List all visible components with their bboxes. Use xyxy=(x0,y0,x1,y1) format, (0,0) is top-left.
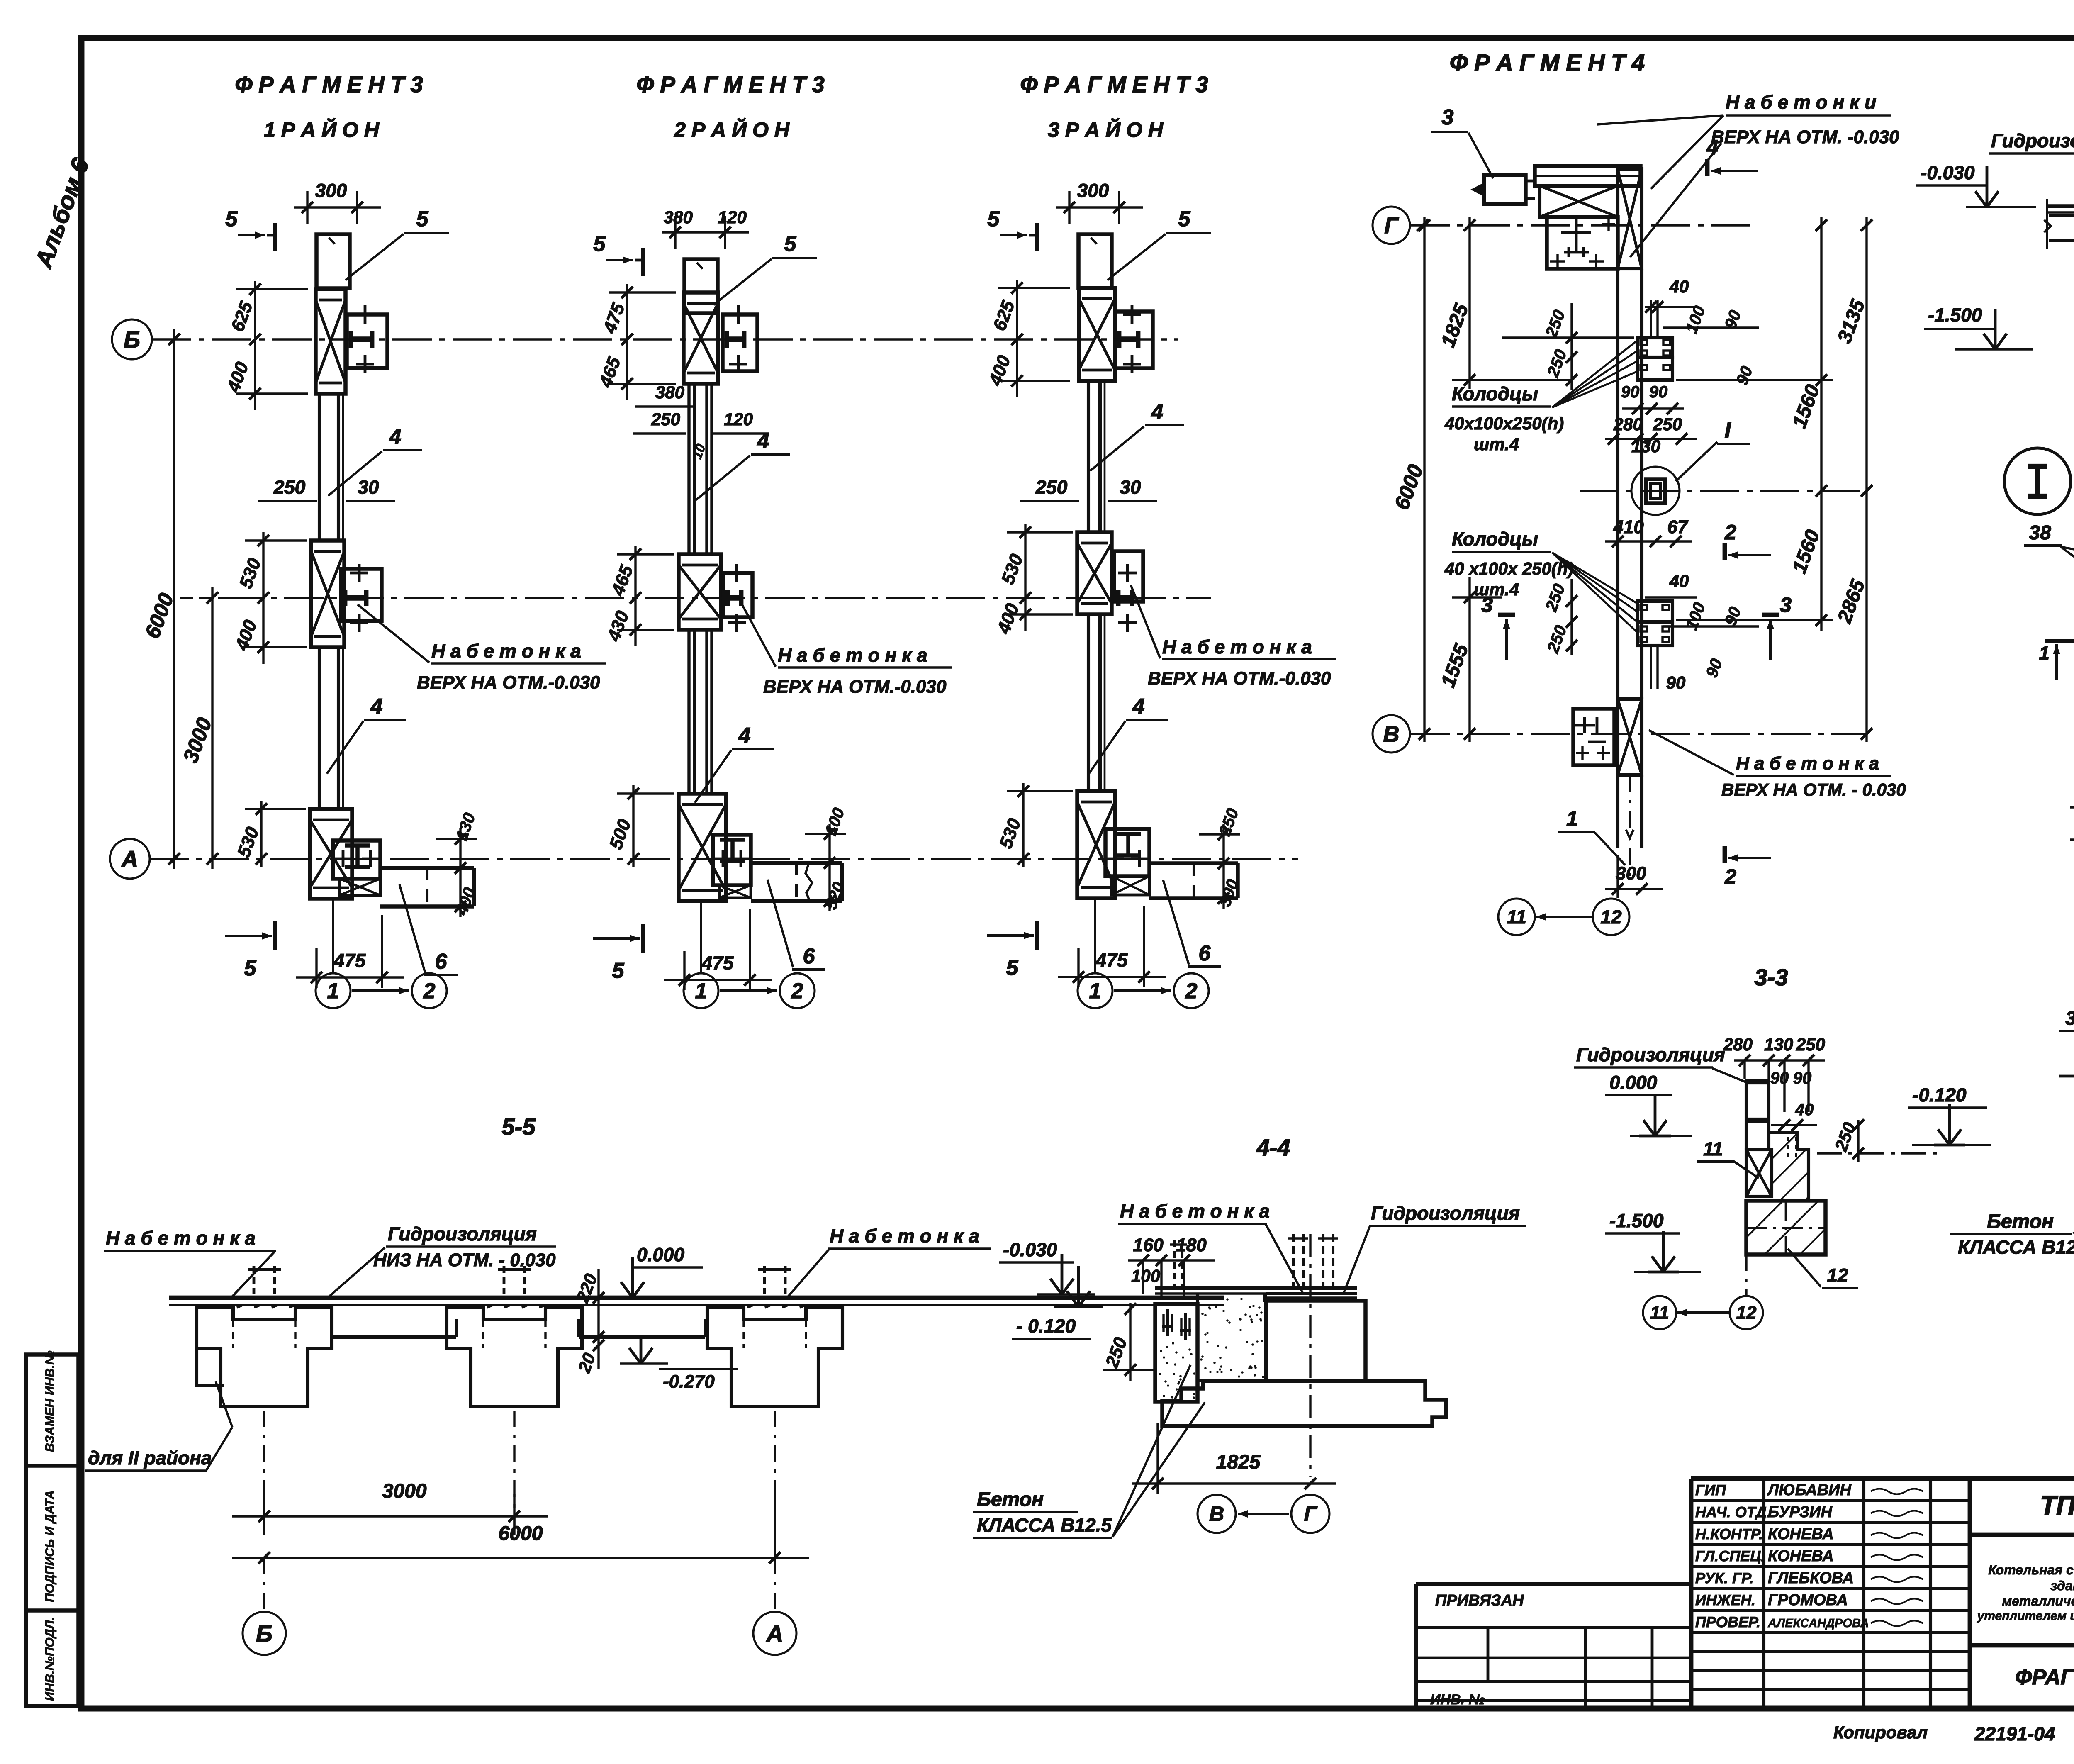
svg-text:6: 6 xyxy=(1199,941,1211,965)
svg-text:КОНЕВА: КОНЕВА xyxy=(1768,1525,1834,1543)
wall plan lines xyxy=(1616,269,1619,699)
dimension 475 bottom xyxy=(1077,948,1079,987)
vertical dim 6000 fragment1 xyxy=(173,329,175,869)
svg-text:250: 250 xyxy=(651,409,680,429)
svg-text:Ф Р А Г М Е Н Т 3: Ф Р А Г М Е Н Т 3 xyxy=(1020,72,1208,97)
left wall block 4-4 xyxy=(1155,1304,1198,1402)
label 5 leader xyxy=(404,232,449,234)
svg-text:3: 3 xyxy=(1780,593,1792,616)
svg-text:5: 5 xyxy=(226,207,238,231)
bolts above pedestal 4-4 xyxy=(1292,1234,1295,1294)
svg-text:Копировал: Копировал xyxy=(1833,1723,1928,1742)
svg-text:250: 250 xyxy=(1035,476,1068,498)
svg-text:В: В xyxy=(1383,722,1400,747)
svg-text:100: 100 xyxy=(1131,1266,1160,1286)
existing slab edge left 2-2 xyxy=(2049,214,2074,217)
names empty rows xyxy=(1691,1650,1970,1653)
svg-text:2: 2 xyxy=(1185,979,1198,1003)
center line 4-4 xyxy=(1309,1234,1311,1477)
section mark 4 top xyxy=(1705,159,1710,176)
axis line A horizontal xyxy=(149,858,1298,860)
upper wells bolt lines xyxy=(1650,300,1652,338)
svg-text:шт.4: шт.4 xyxy=(1474,580,1519,599)
svg-text:2: 2 xyxy=(1724,521,1736,544)
detail I circle in plan xyxy=(1631,467,1680,515)
svg-text:4: 4 xyxy=(389,425,402,449)
svg-text:4: 4 xyxy=(1132,694,1145,719)
svg-text:475: 475 xyxy=(701,952,734,974)
svg-text:Б: Б xyxy=(124,326,140,353)
svg-text:-1.500: -1.500 xyxy=(1609,1210,1664,1231)
svg-text:ГЛЕБКОВА: ГЛЕБКОВА xyxy=(1768,1569,1854,1587)
beam end dims xyxy=(459,828,461,917)
svg-text:38: 38 xyxy=(2029,522,2051,544)
module at axis B plan xyxy=(1573,709,1614,765)
svg-text:11: 11 xyxy=(1650,1303,1669,1323)
top module plan braced panel xyxy=(1540,186,1618,217)
svg-text:Н а б е т о н к и: Н а б е т о н к и xyxy=(1726,91,1876,113)
svg-text:В: В xyxy=(1209,1502,1224,1525)
names rows xyxy=(1691,1499,1970,1502)
kolodtsy leaders upper xyxy=(1552,340,1638,407)
svg-text:Г: Г xyxy=(1304,1502,1318,1525)
top pier xyxy=(1078,234,1112,288)
svg-text:РУК. ГР.: РУК. ГР. xyxy=(1695,1569,1754,1586)
wall lines lower xyxy=(318,647,321,809)
svg-text:40 х100х 250(h): 40 х100х 250(h) xyxy=(1444,559,1574,578)
svg-text:5: 5 xyxy=(1178,207,1191,231)
middle anchor box xyxy=(723,573,752,617)
dimension 475 bottom xyxy=(683,951,685,990)
middle module with cross bracing xyxy=(311,541,344,647)
svg-text:3-3: 3-3 xyxy=(1755,964,1788,990)
svg-text:Н а б е т о н к а: Н а б е т о н к а xyxy=(778,644,927,666)
svg-text:90: 90 xyxy=(1666,673,1686,692)
footing 3-3 xyxy=(1746,1201,1826,1255)
svg-text:4: 4 xyxy=(1151,400,1164,424)
bottom anchor box xyxy=(1105,829,1149,876)
section mark 5 top xyxy=(1029,234,1037,237)
svg-text:300: 300 xyxy=(1616,863,1646,884)
svg-text:280: 280 xyxy=(1723,1035,1753,1054)
left margin stamp boxes xyxy=(26,1355,78,1706)
svg-text:250: 250 xyxy=(273,476,306,498)
axis circles B A 5-5 xyxy=(243,1612,286,1655)
svg-text:38: 38 xyxy=(2065,1007,2074,1029)
svg-text:3: 3 xyxy=(1481,593,1493,616)
dimension 475 bottom xyxy=(315,948,317,988)
axis circles 11 12 3-3 xyxy=(1643,1296,1676,1329)
svg-text:Н а б е т о н к а: Н а б е т о н к а xyxy=(830,1225,979,1247)
svg-text:2 Р А Й О Н: 2 Р А Й О Н xyxy=(674,118,790,141)
wall lines upper xyxy=(318,394,321,541)
svg-text:4: 4 xyxy=(1706,136,1718,159)
top module anchor box plan xyxy=(1547,217,1618,269)
foundation beam 6 xyxy=(380,866,474,870)
left pier 5-5 xyxy=(197,1308,332,1407)
svg-text:250: 250 xyxy=(1796,1035,1825,1054)
beam break mark fragment 2 xyxy=(806,863,812,901)
svg-text:130: 130 xyxy=(1631,436,1660,456)
svg-text:Г: Г xyxy=(1384,213,1399,238)
svg-text:12: 12 xyxy=(1736,1303,1757,1323)
svg-text:22191-04: 22191-04 xyxy=(1974,1723,2055,1745)
svg-text:40: 40 xyxy=(1669,571,1689,591)
svg-text:ПОДПИСЬ И ДАТА: ПОДПИСЬ И ДАТА xyxy=(43,1490,57,1602)
label 5 leader xyxy=(1166,232,1211,234)
svg-text:5: 5 xyxy=(416,207,429,231)
bottom anchor box xyxy=(333,841,380,879)
left dimension 530 xyxy=(632,785,634,867)
wall lines lower xyxy=(1087,614,1090,791)
label 5 leader xyxy=(772,257,817,259)
top anchor box xyxy=(723,314,757,371)
privyazan block xyxy=(1416,1582,1691,1586)
svg-text:ИНЖЕН.: ИНЖЕН. xyxy=(1695,1591,1755,1608)
svg-text:6: 6 xyxy=(803,944,815,968)
svg-text:11: 11 xyxy=(1507,906,1526,928)
axis line middle dashdot xyxy=(224,597,1211,599)
svg-text:5: 5 xyxy=(594,232,606,256)
svg-text:Н а б е т о н к а: Н а б е т о н к а xyxy=(1162,636,1312,658)
left dimension 530 xyxy=(1022,783,1024,867)
middle module with cross bracing xyxy=(679,554,721,630)
section marks 1 detail I xyxy=(2045,639,2074,643)
top dimension 380 120 xyxy=(662,231,749,233)
svg-text:40: 40 xyxy=(1669,277,1689,296)
title block outer xyxy=(1689,1479,1694,1708)
left dimension 625-400 xyxy=(1016,280,1018,397)
svg-text:11: 11 xyxy=(1703,1138,1723,1160)
section mark 5 top xyxy=(635,259,643,262)
svg-text:5: 5 xyxy=(244,956,257,980)
svg-text:475: 475 xyxy=(333,950,366,971)
top pier xyxy=(316,234,350,288)
axis circles 11 and 12 xyxy=(1498,899,1535,935)
wall lines lower xyxy=(687,630,690,794)
axis Г line xyxy=(1410,224,1758,226)
top module with cross bracing xyxy=(1079,288,1115,381)
top wall cross box xyxy=(1618,169,1642,269)
svg-text:Бетон: Бетон xyxy=(1987,1211,2054,1233)
axis circle B xyxy=(112,319,152,359)
svg-text:-0.030: -0.030 xyxy=(1003,1239,1057,1260)
left dimension 530 xyxy=(260,801,262,867)
wall stub below B xyxy=(1616,775,1619,848)
svg-text:ГИП: ГИП xyxy=(1695,1481,1726,1498)
svg-text:ИНВ.№ПОДЛ.: ИНВ.№ПОДЛ. xyxy=(43,1617,57,1701)
svg-text:5-5: 5-5 xyxy=(502,1113,536,1140)
svg-text:АЛЕКСАНДРОВА: АЛЕКСАНДРОВА xyxy=(1767,1617,1869,1630)
cross box 11 3-3 xyxy=(1746,1150,1772,1196)
svg-text:Гидроизоляция: Гидроизоляция xyxy=(1371,1202,1520,1224)
foundation beam 6 xyxy=(751,861,842,865)
svg-text:Н а б е т о н к а: Н а б е т о н к а xyxy=(431,640,581,662)
svg-text:30: 30 xyxy=(358,476,379,498)
svg-text:А: А xyxy=(766,1620,783,1647)
svg-text:380: 380 xyxy=(655,383,684,402)
section mark 2 upper xyxy=(1723,543,1727,560)
left dimension mid xyxy=(262,532,264,664)
svg-text:Гидроизоляция: Гидроизоляция xyxy=(1991,130,2074,151)
svg-text:300: 300 xyxy=(1077,180,1109,201)
element 3 channel box plan xyxy=(1484,175,1526,204)
middle module with cross bracing xyxy=(1077,532,1112,614)
vertical dim 1825 xyxy=(1468,217,1470,389)
svg-text:ПРИВЯЗАН: ПРИВЯЗАН xyxy=(1435,1592,1524,1609)
svg-text:ТП 903-1-244.87: ТП 903-1-244.87 xyxy=(2040,1490,2074,1520)
axis circles 1 and 2 xyxy=(1078,973,1112,1008)
svg-text:280: 280 xyxy=(1613,414,1643,434)
upper wells cluster xyxy=(1638,338,1672,357)
bottom anchor box xyxy=(713,835,751,885)
hydro slab 4-4 xyxy=(1155,1286,1357,1290)
slab underside between piers xyxy=(332,1335,456,1339)
bottom corner module with cross bracing xyxy=(1077,791,1115,898)
nabetonka partial hatch 3-3 xyxy=(1769,1133,1809,1201)
axis Г circle xyxy=(1373,207,1410,244)
bottom small cross box xyxy=(719,885,751,898)
svg-text:ВЕРХ НА ОТМ. - 0.030: ВЕРХ НА ОТМ. - 0.030 xyxy=(1721,780,1906,799)
svg-text:Котельная с 4 котлами ДЕ-10-14: Котельная с 4 котлами ДЕ-10-14гм xyxy=(1988,1562,2074,1577)
svg-text:40: 40 xyxy=(1795,1101,1814,1119)
lower wells cluster xyxy=(1638,601,1672,622)
svg-text:1: 1 xyxy=(695,979,707,1003)
bottom corner module with cross bracing xyxy=(310,809,352,899)
svg-text:Бетон: Бетон xyxy=(977,1489,1044,1511)
svg-text:Ф Р А Г М Е Н Т 3: Ф Р А Г М Е Н Т 3 xyxy=(636,72,824,97)
leader lines nabetonki xyxy=(1651,115,1723,189)
section mark 5 top xyxy=(267,234,275,237)
svg-text:ИНВ. №: ИНВ. № xyxy=(1430,1692,1485,1708)
svg-text:-0.030: -0.030 xyxy=(1921,162,1975,183)
svg-text:ВЕРХ НА ОТМ.-0.030: ВЕРХ НА ОТМ.-0.030 xyxy=(763,677,947,697)
svg-text:1: 1 xyxy=(1566,807,1578,830)
vertical dim 3000 fragment1 xyxy=(211,587,213,869)
svg-text:5: 5 xyxy=(988,207,1000,231)
svg-text:1 Р А Й О Н: 1 Р А Й О Н xyxy=(264,118,380,141)
section mark 5 bottom xyxy=(273,921,277,950)
axis line at detail I xyxy=(1580,490,1867,492)
svg-text:БУРЗИН: БУРЗИН xyxy=(1768,1503,1833,1521)
svg-text:0.000: 0.000 xyxy=(637,1244,685,1265)
svg-text:300: 300 xyxy=(315,180,347,201)
svg-text:-1.500: -1.500 xyxy=(1928,304,1982,326)
svg-text:НИЗ НА ОТМ. - 0.030: НИЗ НА ОТМ. - 0.030 xyxy=(373,1250,556,1270)
svg-text:1: 1 xyxy=(1089,979,1101,1003)
beam end dims xyxy=(828,824,830,911)
svg-text:утеплителем из минераловатных: утеплителем из минераловатных плит xyxy=(1977,1609,2074,1623)
svg-text:Н а б е т о н к а: Н а б е т о н к а xyxy=(106,1227,256,1249)
top anchor box xyxy=(347,314,387,368)
svg-text:160: 160 xyxy=(1133,1235,1164,1255)
kolodtsy leaders lower xyxy=(1552,553,1638,604)
axis circle A xyxy=(110,839,150,879)
svg-text:12: 12 xyxy=(1600,906,1622,928)
bottom small cross box xyxy=(1112,876,1149,895)
svg-text:120: 120 xyxy=(724,409,753,429)
left dimension mid xyxy=(634,546,636,646)
svg-text:1: 1 xyxy=(327,979,339,1003)
svg-text:4-4: 4-4 xyxy=(1256,1134,1290,1160)
svg-text:410: 410 xyxy=(1613,517,1644,537)
svg-text:ЛЮБАВИН: ЛЮБАВИН xyxy=(1767,1481,1852,1499)
axis circles 1 and 2 xyxy=(684,973,718,1008)
svg-text:I: I xyxy=(1724,418,1731,443)
svg-text:Гидроизоляция: Гидроизоляция xyxy=(388,1223,537,1245)
step shape left pier for district II xyxy=(197,1348,224,1386)
foundation beam 6 xyxy=(1149,861,1238,865)
svg-text:475: 475 xyxy=(1095,949,1128,971)
svg-text:-0.120: -0.120 xyxy=(1912,1084,1967,1106)
svg-text:-0.270: -0.270 xyxy=(663,1372,715,1392)
svg-text:ГРОМОВА: ГРОМОВА xyxy=(1768,1591,1848,1609)
svg-text:30: 30 xyxy=(1120,476,1141,498)
svg-text:4: 4 xyxy=(738,724,751,748)
svg-text:Б: Б xyxy=(256,1620,273,1647)
svg-text:ГЛ.СПЕЦ.: ГЛ.СПЕЦ. xyxy=(1695,1547,1765,1564)
svg-text:90: 90 xyxy=(1621,383,1640,401)
svg-text:ФРАГМЕНТЫ 3, 4: ФРАГМЕНТЫ 3, 4 xyxy=(2015,1665,2074,1689)
svg-text:2: 2 xyxy=(423,979,436,1003)
pedestal 4-4 xyxy=(1266,1301,1366,1381)
svg-text:ВЕРХ НА ОТМ.-0.030: ВЕРХ НА ОТМ.-0.030 xyxy=(417,672,600,693)
axis B line xyxy=(1410,733,1867,735)
svg-text:2: 2 xyxy=(791,979,803,1003)
svg-text:ПРОВЕР.: ПРОВЕР. xyxy=(1695,1613,1760,1630)
names column lines xyxy=(1762,1479,1765,1708)
svg-text:130: 130 xyxy=(1764,1035,1793,1054)
svg-text:КЛАССА В12.5: КЛАССА В12.5 xyxy=(1958,1236,2074,1258)
axis circles 1 and 2 xyxy=(316,973,351,1008)
svg-text:4: 4 xyxy=(370,694,383,719)
section marks 3 left and right xyxy=(1498,613,1515,617)
top module with cross bracing xyxy=(316,289,346,394)
svg-text:5: 5 xyxy=(1006,956,1019,980)
svg-text:6: 6 xyxy=(435,950,448,974)
svg-text:6000: 6000 xyxy=(499,1523,543,1545)
axis B circle xyxy=(1373,715,1410,753)
svg-text:КЛАССА В12.5: КЛАССА В12.5 xyxy=(977,1514,1112,1536)
svg-text:2: 2 xyxy=(1724,865,1736,888)
hydro hatch strips at pier tops 5-5 xyxy=(202,1305,209,1308)
svg-text:здание из легких: здание из легких xyxy=(2050,1578,2074,1593)
beam end dims xyxy=(1222,824,1224,909)
footing slab 4-4 xyxy=(1162,1381,1446,1426)
svg-text:12: 12 xyxy=(1827,1265,1848,1286)
section mark 5 bottom xyxy=(641,924,645,953)
section mark 2 lower xyxy=(1723,846,1727,863)
svg-text:КОНЕВА: КОНЕВА xyxy=(1768,1547,1834,1565)
svg-text:5: 5 xyxy=(612,959,625,983)
top dimension 300 xyxy=(294,206,381,208)
bottom corner module with cross bracing xyxy=(679,794,726,901)
axis circles V G 4-4 xyxy=(1198,1495,1236,1533)
left bolts above slab 4-4 xyxy=(1173,1240,1176,1288)
axis line B horizontal xyxy=(152,338,1178,340)
svg-text:90: 90 xyxy=(1770,1069,1789,1087)
svg-text:Н а б е т о н к а: Н а б е т о н к а xyxy=(1736,753,1879,774)
svg-text:3 Р А Й О Н: 3 Р А Й О Н xyxy=(1048,118,1164,141)
middle anchor box xyxy=(1114,551,1143,602)
left dimension mid xyxy=(1024,524,1026,631)
svg-text:5: 5 xyxy=(784,232,797,256)
svg-text:Ф Р А Г М Е Н Т 4: Ф Р А Г М Е Н Т 4 xyxy=(1450,49,1645,76)
ground line 1-1 xyxy=(2059,1075,2074,1078)
svg-text:120: 120 xyxy=(718,207,747,227)
top module with cross bracing xyxy=(684,292,718,384)
svg-text:Н.КОНТР.: Н.КОНТР. xyxy=(1695,1525,1763,1542)
svg-text:90: 90 xyxy=(1649,383,1668,401)
top module plan plate xyxy=(1535,166,1641,186)
svg-text:для II района: для II района xyxy=(88,1447,212,1469)
left dimension 475-465 xyxy=(626,284,628,400)
left dimension 625-400 xyxy=(254,281,256,410)
svg-text:Гидроизоляция: Гидроизоляция xyxy=(1576,1044,1725,1065)
lower wells bolt lines xyxy=(1650,646,1652,689)
svg-text:Ф Р А Г М Е Н Т 3: Ф Р А Г М Е Н Т 3 xyxy=(235,72,423,97)
top dimension 300 xyxy=(1056,206,1143,208)
svg-text:ВЕРХ НА ОТМ.-0.030: ВЕРХ НА ОТМ.-0.030 xyxy=(1148,668,1331,689)
svg-text:40х100х250(h): 40х100х250(h) xyxy=(1444,414,1564,433)
top pier xyxy=(684,259,718,313)
svg-text:НАЧ. ОТД.: НАЧ. ОТД. xyxy=(1695,1503,1771,1520)
svg-text:ВЕРХ НА ОТМ. -0.030: ВЕРХ НА ОТМ. -0.030 xyxy=(1711,127,1899,147)
big right block frame xyxy=(1970,1533,2074,1537)
vertical dim 6000 left xyxy=(1423,217,1425,742)
middle anchor box xyxy=(341,569,382,621)
right dims 3135 1560 1560 2865 xyxy=(1865,217,1867,742)
detail I leader label xyxy=(1676,442,1717,481)
svg-text:1825: 1825 xyxy=(1216,1451,1261,1473)
wall top 3-3 xyxy=(1745,1084,1748,1150)
svg-text:Колодцы: Колодцы xyxy=(1452,383,1538,404)
svg-text:шт.4: шт.4 xyxy=(1474,434,1519,454)
svg-text:90: 90 xyxy=(1793,1069,1812,1087)
svg-text:0.000: 0.000 xyxy=(1609,1072,1658,1093)
bottom small cross box xyxy=(339,879,380,895)
svg-text:- 0.120: - 0.120 xyxy=(1016,1315,1076,1337)
svg-text:Н а б е т о н к а: Н а б е т о н к а xyxy=(1120,1200,1270,1222)
svg-text:3: 3 xyxy=(1442,105,1454,129)
section mark 5 bottom xyxy=(1035,921,1039,950)
svg-text:380: 380 xyxy=(664,207,693,227)
svg-text:металлических конструкций с: металлических конструкций с xyxy=(2002,1593,2074,1608)
svg-text:250: 250 xyxy=(1653,414,1682,434)
svg-text:ВЗАМЕН ИНВ.№: ВЗАМЕН ИНВ.№ xyxy=(43,1351,57,1452)
slab lines 2-2 xyxy=(2047,204,2074,208)
top anchor box xyxy=(1115,312,1153,368)
svg-text:67: 67 xyxy=(1667,517,1689,537)
slab 5-5 xyxy=(169,1296,1224,1300)
wall lines upper xyxy=(1087,381,1090,532)
svg-text:3000: 3000 xyxy=(382,1480,427,1502)
wall lines upper xyxy=(687,384,690,554)
nabetonka speckled block 4-4 xyxy=(1198,1294,1266,1381)
svg-text:1: 1 xyxy=(2039,642,2050,664)
svg-text:А: А xyxy=(121,846,138,872)
detail circle I big xyxy=(2004,448,2071,514)
wall cross box at B xyxy=(1618,699,1642,775)
svg-text:Колодцы: Колодцы xyxy=(1452,528,1538,550)
anchor symbols in left block 4-4 xyxy=(1166,1309,1169,1336)
